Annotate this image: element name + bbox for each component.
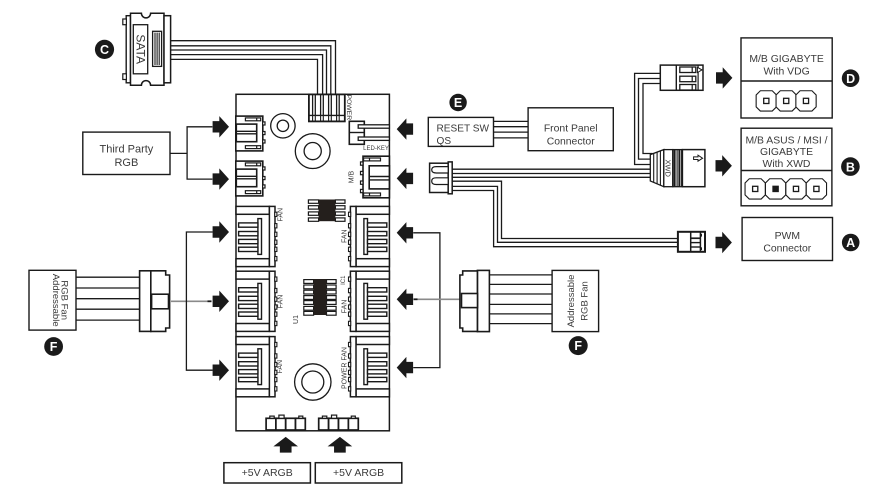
arrow to box A	[716, 232, 732, 253]
svg-text:D: D	[846, 72, 855, 86]
svg-text:F: F	[574, 339, 582, 353]
svg-text:E: E	[454, 96, 462, 110]
VDG wire 1	[635, 73, 661, 164]
svg-text:+5V ARGB: +5V ARGB	[333, 467, 384, 479]
arrow into FAN R1	[397, 222, 413, 243]
svg-text:XWD: XWD	[664, 159, 673, 177]
RGB connector J1 (left, upper)	[236, 116, 265, 151]
svg-text:M/B GIGABYTE: M/B GIGABYTE	[749, 54, 824, 65]
mounting hole big (lower)	[295, 364, 331, 400]
cable wire 2 to XWD	[452, 173, 650, 175]
svg-text:PWM: PWM	[775, 231, 800, 242]
svg-text:U1: U1	[293, 315, 300, 324]
arrow into RGB J2	[213, 168, 229, 189]
label box	[29, 270, 76, 330]
right fan plug	[460, 270, 490, 331]
arrow into FAN L2	[213, 291, 229, 312]
wires between boxes	[494, 121, 529, 137]
SATA wire 5	[171, 59, 318, 94]
svg-text:POWER: POWER	[345, 94, 352, 120]
RESET SW QS box	[428, 117, 493, 146]
arrow into M/B header	[397, 168, 413, 189]
up arrow 2	[328, 437, 353, 453]
bottom ARGB header right group	[319, 415, 359, 430]
box B: M/B ASUS / MSI / GIGABYTE With XWD	[741, 128, 832, 206]
svg-text:RGB Fan: RGB Fan	[59, 280, 70, 320]
svg-text:F: F	[50, 340, 58, 354]
box D: M/B GIGABYTE With VDG	[741, 38, 832, 118]
up arrow 1	[273, 437, 298, 453]
+5V ARGB box right	[315, 463, 402, 483]
FAN header right 1 (mirrored)	[349, 206, 390, 266]
svg-text:RGB Fan: RGB Fan	[580, 281, 591, 321]
VDG wire 3	[643, 84, 660, 154]
fan cable wires	[76, 277, 140, 320]
svg-text:With XWD: With XWD	[763, 159, 811, 170]
VDG plug	[660, 65, 703, 90]
svg-text:SATA: SATA	[133, 34, 147, 64]
svg-text:FAN: FAN	[278, 208, 285, 222]
fan plug	[140, 271, 170, 332]
svg-text:C: C	[100, 43, 109, 57]
cable wire 4 to PWM	[452, 181, 678, 238]
bracket	[187, 127, 212, 179]
svg-text:FAN: FAN	[277, 360, 284, 374]
wire from box to bracket	[170, 152, 187, 154]
svg-text:Addressable: Addressable	[566, 275, 577, 328]
RGB connector J2 (left, lower)	[236, 161, 265, 196]
FAN header left 1	[236, 206, 277, 266]
Third Party RGB box	[83, 132, 170, 174]
arrow into FAN L3	[213, 360, 229, 381]
svg-text:FAN: FAN	[342, 229, 349, 243]
svg-text:A: A	[846, 236, 855, 250]
arrow into RGB J1	[213, 116, 229, 137]
FAN header left 3	[236, 337, 277, 397]
right fan bracket	[413, 233, 440, 368]
circle label C	[95, 40, 114, 59]
svg-text:GIGABYTE: GIGABYTE	[760, 147, 813, 158]
gray lead line	[414, 298, 418, 300]
svg-text:QS: QS	[437, 136, 452, 147]
svg-text:RGB: RGB	[114, 157, 138, 169]
svg-text:M/B ASUS / MSI /: M/B ASUS / MSI /	[746, 136, 828, 147]
svg-text:+5V ARGB: +5V ARGB	[242, 467, 293, 479]
arrow to box B	[716, 155, 732, 176]
+5V ARGB box left	[224, 463, 311, 483]
circle label D	[842, 69, 860, 87]
plug body	[682, 150, 705, 187]
svg-text:With VDG: With VDG	[764, 67, 810, 78]
PCB board outline	[236, 94, 389, 431]
svg-text:LED-KEY: LED-KEY	[363, 146, 389, 152]
svg-text:FAN: FAN	[278, 295, 285, 309]
mounting hole big (upper)	[295, 134, 330, 169]
circle label F	[44, 337, 63, 356]
M/B connector (right)	[361, 156, 390, 198]
circle label E	[449, 94, 466, 111]
VDG wire 2	[639, 79, 661, 160]
circle label F	[569, 336, 588, 355]
svg-text:IC1: IC1	[341, 275, 347, 285]
small white arrow marking	[694, 155, 703, 161]
svg-text:Front Panel: Front Panel	[544, 124, 598, 135]
arrow into FAN L1	[213, 221, 229, 242]
LED-KEY connector	[349, 121, 389, 144]
SATA wire 2	[171, 46, 331, 95]
XWD label section	[664, 150, 673, 187]
svg-text:Third Party: Third Party	[100, 143, 154, 155]
SATA wire 3	[171, 50, 327, 94]
SATA wire 1	[171, 41, 336, 95]
svg-text:RESET SW: RESET SW	[437, 124, 490, 135]
svg-text:POWER FAN: POWER FAN	[342, 347, 349, 389]
svg-text:FAN: FAN	[342, 300, 349, 314]
IC U1 (14-pin, middle)	[304, 279, 336, 315]
box A: PWM Connector	[742, 218, 832, 261]
FAN header right 2 (mirrored)	[349, 271, 390, 331]
cable wire 5 to PWM	[452, 186, 678, 242]
fan cable wires	[489, 275, 552, 324]
SATA wire 4	[171, 55, 323, 95]
arrow into FAN R3	[397, 357, 413, 378]
IC U2 (8-pin, upper middle)	[308, 200, 345, 222]
svg-text:Connector: Connector	[763, 244, 811, 255]
gray lead line	[171, 300, 208, 302]
bottom ARGB header left group	[266, 415, 305, 430]
FAN header left 2	[236, 271, 277, 331]
arrow into FAN R2	[397, 289, 413, 310]
Front Panel Connector box	[528, 108, 613, 151]
mounting hole small (top left)	[271, 114, 295, 138]
2-pin plug	[430, 162, 453, 194]
svg-text:Connector: Connector	[547, 137, 595, 148]
circle label A	[842, 234, 860, 252]
strain relief funnel	[650, 150, 664, 187]
cable wire 6 to PWM	[452, 191, 678, 247]
POWER header J-PWR (top edge of PCB)	[309, 94, 345, 121]
svg-text:M/B: M/B	[348, 170, 355, 183]
cable wire 1 to XWD	[452, 168, 650, 170]
FAN header right 3 (mirrored)	[349, 337, 390, 397]
left fan bracket	[186, 232, 212, 370]
arrow into LED-KEY	[397, 118, 413, 139]
label box	[552, 270, 599, 331]
SATA connector body	[123, 13, 171, 85]
svg-text:B: B	[846, 160, 855, 174]
arrow to box D	[716, 67, 732, 88]
cable wire 3 to XWD	[452, 176, 650, 178]
circle label B	[841, 157, 860, 176]
ribbed section	[673, 150, 683, 187]
